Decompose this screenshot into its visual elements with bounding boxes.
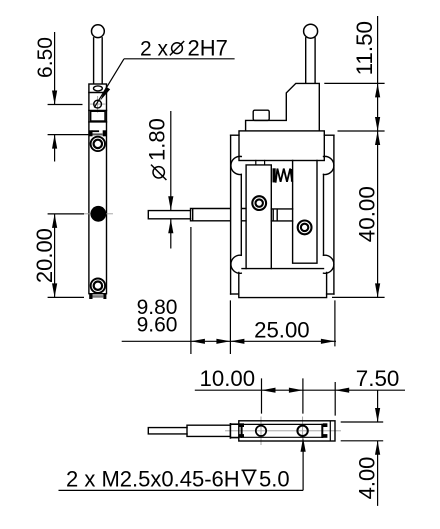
front view: probe thin rod [148,211,190,219]
dim 4.00 lines [341,390,384,506]
front view: bottom step left [231,293,239,295]
bottom view: hole left [256,426,266,436]
arrow 9.60 right [216,339,230,344]
front view: spring zigzag [276,169,293,182]
svg-text:7.50: 7.50 [356,366,400,391]
arrow leader M2.5 [301,438,306,452]
arrow 4.00 bottom [375,441,380,455]
front view: column hanger ticks [256,161,265,165]
front view: probe shaft [191,209,230,221]
arrow 40.00 top [375,131,380,145]
side view: clamp left block [89,130,92,136]
arrow 40.00 bottom [375,283,380,297]
svg-text:5.0: 5.0 [259,467,290,492]
front view: screw 2 [298,221,312,235]
arrow 11.50 bottom [375,117,380,131]
arrow 11.50 top [375,83,380,97]
front view: outer wall left [230,135,232,294]
arrow 9.60 left [191,339,205,344]
bottom view: probe thin rod [148,428,187,434]
label dia 1.80 [145,118,170,180]
front view: carriage tab [253,110,269,120]
arrow leader 2H7 [100,87,110,101]
side view: top screw [91,137,105,151]
front view: bottom step right [327,293,334,295]
arrow 6.50 top [52,91,57,105]
front view: left shoulder step [231,134,239,136]
side view: divider line [89,121,107,123]
bottom view: right clamp [321,425,323,437]
dim 11.50 / 40.00 lines [324,16,384,297]
bottom view: hole right [297,426,307,436]
bottom view: body outline [239,421,335,441]
label 20.00 [32,228,57,283]
svg-text:11.50: 11.50 [352,21,377,75]
front view: flexure arc top-right [324,156,334,174]
side view: top slot ellipse [94,86,103,91]
leader 2H7 [94,59,234,108]
depth symbol [242,470,257,484]
front view: knob stem [306,38,315,84]
side view: foot gray band [93,295,104,298]
arrow 6.50 bottom [52,135,57,149]
svg-text:6.50: 6.50 [34,37,57,78]
bottom view: gray centerlines [226,417,341,445]
front view: top bar [239,131,324,161]
leader M2.5 [59,451,304,490]
bottom view: left clamp [241,425,243,437]
arrow dia1.80 bottom [168,219,173,233]
bottom view: right inner vertical [329,422,331,440]
svg-text:2 x: 2 x [140,37,169,60]
front view: right shoulder step [324,134,334,136]
arrow 20.00 bottom [52,283,57,297]
front view: collar between columns [271,209,292,221]
front view: slider column [246,165,271,269]
front view: cavity floor [242,268,324,270]
dim 6.50 lines [48,32,89,162]
front view: right T column [293,161,317,264]
svg-text:2H7: 2H7 [188,35,228,60]
front view: outer wall right [333,135,335,294]
arrow 7.50 [335,388,349,393]
side view: hole 2H7 centerlines [91,97,106,113]
side view: slot box [91,111,106,121]
front view: knob circle [304,24,318,38]
side view: dot centerline [84,213,113,215]
arrow 20.00 top [52,214,57,228]
svg-text:2 x M2.5x0.45-6H: 2 x M2.5x0.45-6H [66,467,240,492]
side view: foot right [103,294,106,299]
label 40.00 [354,186,379,242]
dim dia1.80 lines [170,111,172,249]
dim 20.00 lines [48,214,84,298]
svg-text:40.00: 40.00 [354,186,379,242]
side view: knob circle [92,25,105,38]
bottom view: left neck [230,424,238,438]
bottom view: inner plate lines [244,424,322,437]
side view: main column body [89,84,107,294]
dim 9.60 / 25.00 line [122,227,336,354]
side view: divider line [89,92,107,94]
svg-text:25.00: 25.00 [254,318,310,343]
svg-text:1.80: 1.80 [145,118,170,161]
label 4.00 [354,457,379,500]
bottom view: probe shaft [187,425,230,436]
front view: spring left coil block [273,168,276,182]
svg-text:9.60: 9.60 [137,314,178,337]
side view: foot left [89,294,92,299]
side view: knob stem [94,38,103,84]
side view: clamp gray band [93,133,103,135]
front view: cavity left wall [240,174,242,255]
front view: cavity right wall [323,174,325,255]
arrow 4.00 top [375,408,380,422]
front view: flexure arc top-left [231,156,241,174]
front view: spring right coil block [291,169,293,182]
front view: base bar [239,273,327,298]
side view: divider line [89,109,107,111]
arrow 25.00 left [230,339,244,344]
front view: flexure arc bottom-right [324,255,334,273]
side view: clamp right block [103,130,107,136]
arrow 10.00 right [289,388,303,393]
front view: screw 1 [252,196,266,210]
svg-text:4.00: 4.00 [354,457,379,500]
arrow 10.00 left [262,388,276,393]
front view: flexure arc bottom-left [231,255,241,273]
label 6.50 [34,37,57,78]
label 11.50 [352,21,377,75]
arrow 25.00 right [321,339,335,344]
side view: bottom screw [91,279,105,293]
svg-text:10.00: 10.00 [200,366,256,391]
arrow dia1.80 top [168,196,173,210]
side view: hole 2H7 circle [94,100,102,108]
dim 10.00 / 7.50 line [195,378,405,415]
front view: carriage block [246,83,320,130]
svg-text:20.00: 20.00 [32,228,57,283]
side view: filled dot [90,206,106,222]
side view: clamp bar [93,130,99,132]
front view: shaft stub inside cavity [242,209,246,221]
